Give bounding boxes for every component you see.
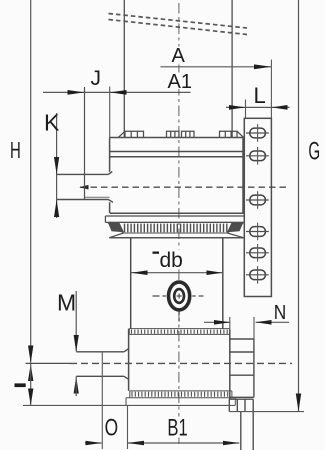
stem column right edge: [231, 0, 233, 138]
port boss outer ring: [169, 282, 190, 310]
input shaft stub top: [57, 172, 113, 175]
flange slot hole 3: [246, 191, 269, 209]
vertical centerline: [178, 3, 180, 447]
dimension K: [54, 113, 59, 218]
svg-text:M: M: [57, 289, 76, 315]
svg-text:A: A: [172, 45, 186, 67]
knurl end cap left: [108, 223, 124, 233]
phantom lever line 2: [109, 20, 248, 35]
phantom lever line 1: [109, 14, 248, 29]
dimension A1 / J line: [43, 91, 191, 93]
input shaft keyway line: [85, 196, 110, 198]
svg-text:N: N: [274, 302, 287, 324]
valve body top band: [129, 329, 229, 335]
knurled ring upper: [108, 222, 244, 233]
horizontal centerline lower: [26, 362, 71, 364]
bolt group right on flange: [220, 131, 244, 137]
pipe stub left top: [76, 349, 128, 352]
flange slot hole 6: [246, 266, 269, 284]
side flange plate: [244, 118, 271, 296]
dimension db: [131, 270, 223, 275]
horizontal centerline upper: [80, 186, 290, 188]
dimension O: [85, 352, 102, 449]
dimension N: [204, 317, 289, 339]
dimension A line: [161, 66, 272, 68]
dimension M: [74, 291, 79, 396]
gearbox body left edge: [109, 138, 111, 214]
dimension G line: [298, 0, 300, 411]
dimension G arrow: [296, 394, 301, 412]
bolt group center on flange: [167, 131, 195, 137]
flange slot hole 5: [246, 244, 269, 262]
A1/J arrow left-pointing: [110, 90, 127, 95]
flange slot hole 2: [246, 147, 269, 165]
bottom extension line I: [23, 404, 235, 406]
pipe stub left bottom: [76, 376, 128, 379]
port centerline ticks: [153, 294, 204, 322]
svg-text:K: K: [44, 110, 60, 136]
label I (rotated bar): [15, 383, 26, 387]
valve body right edge: [229, 330, 231, 399]
dimension A arrow: [254, 64, 271, 69]
extension line flange right top: [270, 60, 272, 119]
J arrow right-pointing: [68, 90, 85, 95]
dimension B1: [127, 406, 239, 449]
dimension L: [226, 100, 290, 118]
knurl end cap right: [227, 223, 243, 233]
mounting face line J: [84, 87, 86, 200]
body bottom line: [110, 212, 244, 214]
dimension H line: [30, 0, 32, 363]
bolt group left on flange: [118, 131, 143, 137]
stem column left edge: [123, 0, 125, 138]
svg-text:O: O: [105, 415, 119, 442]
centerline arrow: [79, 185, 88, 190]
svg-text:db: db: [160, 249, 183, 272]
right pipe flange socket: [230, 339, 254, 397]
svg-text:B1: B1: [167, 415, 187, 442]
gland band: [105, 216, 243, 222]
db minus sign: [153, 252, 160, 254]
gearbox body right edge: [242, 138, 244, 214]
flange slot hole 4: [246, 223, 269, 241]
dimension H arrow: [28, 346, 33, 364]
svg-text:L: L: [254, 83, 266, 108]
valve body bottom band: [126, 391, 235, 405]
dimension I arrows: [28, 364, 33, 381]
top flange plate: [110, 138, 244, 157]
svg-text:J: J: [91, 67, 102, 90]
svg-text:A1: A1: [168, 71, 192, 93]
column cylinder left edge: [130, 238, 132, 329]
input shaft stub bottom: [57, 200, 113, 203]
svg-text:H: H: [10, 137, 21, 163]
valve body left edge: [128, 329, 130, 391]
bottom extension line G: [229, 411, 304, 413]
svg-text:G: G: [308, 138, 320, 166]
column cylinder right edge: [222, 238, 224, 329]
port boss mask: [167, 280, 192, 312]
flange slot hole 1: [246, 124, 269, 142]
bottom bracket: [229, 399, 253, 450]
body face extension: [109, 87, 111, 138]
bell skirt: [109, 233, 243, 238]
port boss inner ring: [174, 289, 184, 303]
